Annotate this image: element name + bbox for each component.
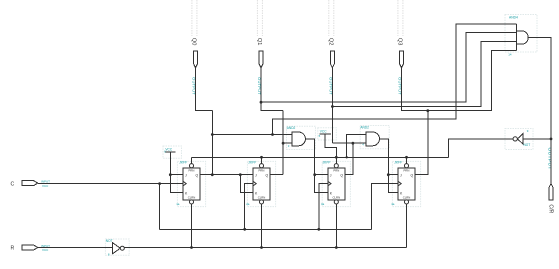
svg-text:14: 14 xyxy=(508,53,512,57)
input pin C xyxy=(11,180,51,188)
inverter U8 symbol box xyxy=(105,239,129,255)
flip-flop U4 (JKFF) xyxy=(391,161,415,207)
junction FF4 PRN xyxy=(405,156,408,159)
wire Q0 row FF1 Q to FF2 J xyxy=(200,174,253,176)
junction FF3 CLRN xyxy=(335,246,338,249)
wire R input line xyxy=(38,247,113,249)
svg-text:CLRN: CLRN xyxy=(332,196,340,200)
svg-text:Q: Q xyxy=(411,173,414,177)
power VCC P1 symbol box xyxy=(318,128,337,140)
svg-text:J: J xyxy=(400,173,402,177)
wire FF2 PRN riser xyxy=(261,157,263,163)
svg-text:NOT: NOT xyxy=(524,143,531,147)
junction FF3 J xyxy=(313,173,316,176)
wire Q2 bus to AND4 input 3 xyxy=(332,42,516,107)
AND gate U6 (AND2) xyxy=(360,126,379,147)
output pin Q1 symbol box xyxy=(257,0,262,36)
svg-text:J: J xyxy=(255,173,257,177)
junction FF2 CLRN xyxy=(260,246,263,249)
junction clock drop xyxy=(158,182,161,185)
output pin Q0 xyxy=(191,38,198,95)
svg-text:J: J xyxy=(330,173,332,177)
svg-text:AND2: AND2 xyxy=(360,126,369,130)
AND gate U7 (AND4) xyxy=(508,16,528,57)
wire Q2 row to AND2 U6 input 2 xyxy=(332,142,366,144)
AND gate U6 symbol box xyxy=(360,126,389,149)
output pin Q1 xyxy=(256,38,263,95)
junction AND4 output NOT input xyxy=(550,137,553,140)
svg-text:Q3: Q3 xyxy=(397,38,403,45)
flip-flop U3 symbol box xyxy=(322,161,350,206)
junction Q2 AND2 input xyxy=(352,142,355,145)
wire Q3 bus to AND4 input 4 xyxy=(428,50,517,110)
wire NOT U8 output clear bus xyxy=(124,247,406,249)
wire clock drop xyxy=(159,184,161,230)
svg-text:VCC: VCC xyxy=(320,130,327,134)
flip-flop U4 symbol box xyxy=(392,161,420,206)
svg-text:VCC: VCC xyxy=(42,248,49,252)
wire FF3 PRN riser xyxy=(335,157,337,163)
flip-flop U3 (JKFF) xyxy=(321,161,345,207)
input pin R xyxy=(11,244,51,252)
wire Q0 feedback riser to AND4 xyxy=(273,24,517,135)
wire FF2 CLRN riser xyxy=(261,204,263,248)
wire Q0 pin drop xyxy=(196,68,213,111)
wire FF1 PRN riser xyxy=(190,157,192,163)
wire FF1 CLRN riser xyxy=(191,204,193,248)
wire FF2 clock riser xyxy=(245,184,253,230)
wire NOT U9 input xyxy=(523,138,551,140)
wire FF2 J/K splitter xyxy=(240,175,253,193)
wire AND2 U6 output to FF4 J xyxy=(380,139,398,175)
svg-text:JKFF: JKFF xyxy=(178,161,188,165)
svg-text:Q2: Q2 xyxy=(328,38,334,45)
svg-text:JKFF: JKFF xyxy=(247,161,257,165)
output pin Q2 symbol box xyxy=(329,0,334,36)
power VCC P2 symbol box xyxy=(163,146,182,158)
wire Q1 pin drop xyxy=(261,68,283,111)
wire FF3 clock riser xyxy=(319,184,328,230)
junction Q3 branch xyxy=(426,109,429,112)
svg-text:Q: Q xyxy=(196,173,199,177)
junction Q1 AND2 input xyxy=(282,142,285,145)
junction Q2 branch xyxy=(331,105,334,108)
svg-text:Q0: Q0 xyxy=(191,38,197,45)
wire node Q0 vertical xyxy=(211,111,213,175)
svg-text:2a: 2a xyxy=(246,202,250,206)
wire VCC P2 tick to FF1 J xyxy=(170,152,183,175)
wire Q1 to AND2 U5 input 2 xyxy=(283,142,292,144)
junction Q0 AND2 row xyxy=(211,133,214,136)
wire Q1 bus to AND4 input 2 xyxy=(261,33,516,103)
flip-flop U1 symbol box xyxy=(177,161,205,206)
svg-text:C/R: C/R xyxy=(547,204,553,213)
svg-text:AND2: AND2 xyxy=(287,126,296,130)
svg-text:CLRN: CLRN xyxy=(258,196,266,200)
svg-text:Q: Q xyxy=(340,173,343,177)
AND gate U5 (AND2) xyxy=(287,126,306,148)
junction FF1 Q xyxy=(211,173,214,176)
svg-text:CLRN: CLRN xyxy=(188,196,196,200)
wire FF4 J/K splitter xyxy=(388,175,398,193)
power VCC P2 xyxy=(164,148,175,154)
inverter U9 symbol box xyxy=(505,129,533,150)
wire C input line xyxy=(38,183,183,185)
wire FF4 clock riser xyxy=(371,184,398,230)
wire FF4 PRN riser xyxy=(406,157,408,163)
junction FF4 J xyxy=(387,173,390,176)
wire FF2 Q stub xyxy=(270,174,283,176)
wire Q0 to AND2 U5 input 1 xyxy=(212,134,292,136)
junction FF1 CLRN xyxy=(190,246,193,249)
svg-text:PRN: PRN xyxy=(404,168,410,172)
output pin Q2 xyxy=(328,38,335,95)
svg-text:J: J xyxy=(185,173,187,177)
wire FF3 CLRN riser xyxy=(335,204,337,248)
power VCC P1 xyxy=(319,130,331,139)
junction AND2 U6 input1 tap xyxy=(346,156,348,158)
junction Q0 AND4 riser xyxy=(271,133,274,136)
AND gate U5 symbol box xyxy=(287,126,316,149)
svg-text:C: C xyxy=(11,181,15,187)
output pin Q0 symbol box xyxy=(192,0,197,36)
svg-text:PRN: PRN xyxy=(259,168,265,172)
junction Q1 branch xyxy=(260,101,263,104)
wire clock bus xyxy=(160,228,372,230)
wire FF4 Q riser xyxy=(415,111,428,175)
svg-text:4a: 4a xyxy=(391,202,395,206)
wire NOT U9 output to PRN bus xyxy=(448,139,513,157)
svg-text:Q: Q xyxy=(266,173,269,177)
output pin Q3 xyxy=(397,38,404,95)
svg-text:NOT: NOT xyxy=(106,239,113,243)
svg-text:PRN: PRN xyxy=(333,168,339,172)
flip-flop U2 (JKFF) xyxy=(246,161,270,207)
svg-text:VCC: VCC xyxy=(42,184,49,188)
flip-flop U2 symbol box xyxy=(247,161,275,206)
junction FF3 clock xyxy=(317,228,320,231)
wire Q3 pin drop xyxy=(402,68,428,111)
svg-text:3a: 3a xyxy=(321,202,325,206)
svg-text:AND4: AND4 xyxy=(509,16,518,20)
wire Q2 pin drop xyxy=(331,68,333,143)
junction FF2 clock xyxy=(243,228,246,231)
svg-text:JKFF: JKFF xyxy=(393,161,403,165)
svg-text:PRN: PRN xyxy=(189,168,195,172)
junction FF1 J xyxy=(169,173,172,176)
svg-text:R: R xyxy=(11,245,15,251)
junction FF3 PRN xyxy=(335,156,338,159)
wire node Q1 vertical xyxy=(282,111,284,175)
svg-text:VCC: VCC xyxy=(165,148,172,152)
svg-text:1a: 1a xyxy=(176,202,180,206)
wire AND2 U6 input 1 from PRN net xyxy=(347,135,367,158)
wire FF3 J/K splitter xyxy=(315,175,328,193)
wire FF1 J/K splitter xyxy=(170,175,183,193)
output pin Q3 symbol box xyxy=(398,0,403,36)
wire AND2 U5 output to FF3 J xyxy=(305,139,328,175)
inverter U9 (NOT, mirrored) xyxy=(513,129,530,147)
wire VCC P1 tick to FF3 PRN xyxy=(325,134,336,157)
AND gate U7 symbol box xyxy=(505,15,537,53)
flip-flop U1 (JKFF) xyxy=(176,161,200,207)
svg-text:JKFF: JKFF xyxy=(322,161,332,165)
wire PRN bus xyxy=(191,156,448,158)
wire AND4 output to node C/R xyxy=(528,38,551,184)
svg-text:CLRN: CLRN xyxy=(403,196,411,200)
junction FF2 J xyxy=(239,173,242,176)
junction FF2 PRN xyxy=(260,156,263,159)
output pin C/R xyxy=(546,147,553,213)
wire FF4 CLRN riser xyxy=(406,204,408,248)
inverter U8 (NOT) xyxy=(106,239,125,256)
wire FF3 Q riser xyxy=(345,143,353,175)
svg-text:Q1: Q1 xyxy=(256,38,262,45)
